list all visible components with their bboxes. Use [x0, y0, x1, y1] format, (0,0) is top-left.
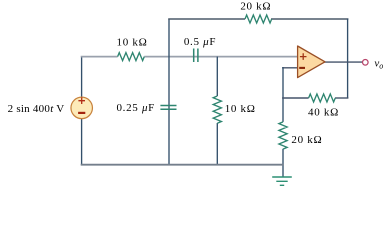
- wire: node A vertical up to feedback corner: [168, 19, 170, 165]
- source minus sign: [78, 112, 85, 114]
- wire: minus input horizontal: [282, 67, 298, 69]
- svg-text:40 kΩ: 40 kΩ: [308, 106, 339, 118]
- resistor R1 10k horizontal top-left: [118, 53, 145, 61]
- wire: bottom rail: [81, 164, 284, 166]
- wire: vertical minus input down through 40k node to R5: [282, 67, 284, 122]
- svg-text:2 sin 400t V: 2 sin 400t V: [8, 103, 65, 115]
- op-amp minus input mark: [299, 67, 305, 69]
- op-amp U1 triangle: [298, 46, 325, 78]
- ground: [272, 177, 292, 185]
- wire: R3 bottom to rail: [216, 123, 218, 165]
- source plus sign: [78, 97, 85, 104]
- wire: op-amp output to terminal: [324, 61, 362, 63]
- svg-text:0.25 μF: 0.25 μF: [116, 102, 155, 114]
- wire: 40k row right segment: [335, 97, 348, 99]
- wire: left vertical from source bottom to bottom rail: [81, 119, 83, 165]
- wire: R5 bottom to rail and ground stub: [282, 149, 284, 177]
- wire: right vertical output node from feedback top to 40k row: [347, 19, 349, 98]
- resistor R4 40k horizontal: [309, 94, 336, 102]
- resistor R3 10k vertical middle: [213, 96, 221, 123]
- wire: main horizontal source corner to R1: [81, 56, 118, 58]
- resistor R2 20k top feedback: [245, 15, 272, 23]
- wire: node B vertical down to R3: [216, 57, 218, 96]
- svg-text:vo: vo: [374, 58, 383, 71]
- svg-text:10 kΩ: 10 kΩ: [117, 36, 148, 48]
- wire: top feedback horizontal left of R2: [168, 18, 245, 20]
- capacitor C2 0.25uF plates: [160, 106, 176, 110]
- wire: main horizontal R1 to node A: [144, 56, 298, 58]
- source VS circle: [71, 97, 93, 119]
- op-amp plus input mark: [300, 53, 307, 60]
- svg-text:0.5 μF: 0.5 μF: [184, 36, 216, 48]
- svg-text:10 kΩ: 10 kΩ: [225, 103, 256, 115]
- svg-text:20 kΩ: 20 kΩ: [291, 134, 322, 146]
- wire: 40k row left segment: [282, 97, 309, 99]
- resistor R5 20k vertical right: [279, 122, 287, 149]
- capacitor C1 0.5uF plates: [194, 49, 198, 63]
- wire: top feedback horizontal right of R2: [271, 18, 348, 20]
- output terminal circle: [363, 60, 369, 66]
- svg-text:20 kΩ: 20 kΩ: [240, 0, 271, 12]
- wire: left vertical from top corner to source top: [81, 57, 83, 98]
